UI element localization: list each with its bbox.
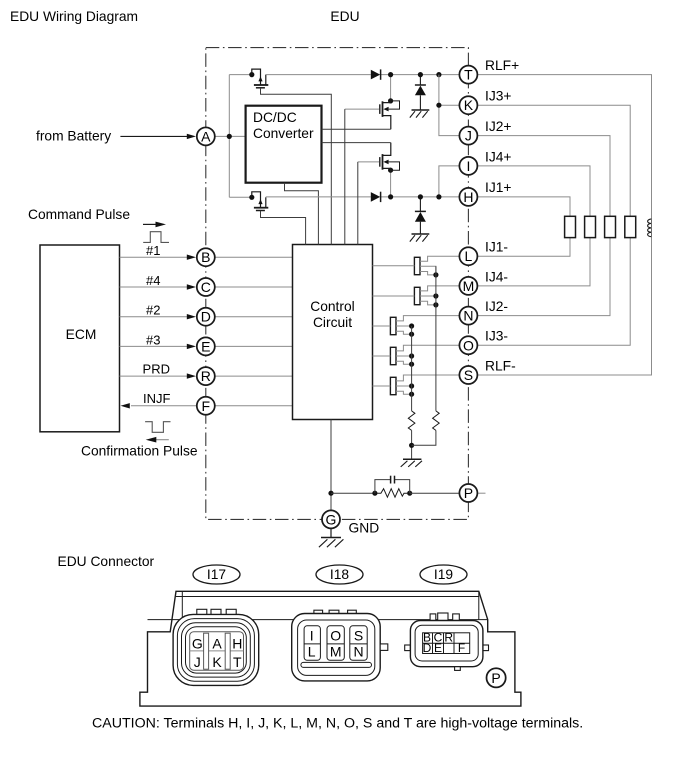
- wire control bottom to G: [328, 420, 333, 520]
- wire Q2 gate riser: [345, 109, 379, 244]
- ground under G: [319, 529, 344, 547]
- svg-text:A: A: [212, 635, 222, 651]
- svg-text:EDU Wiring Diagram: EDU Wiring Diagram: [10, 9, 138, 24]
- wire DC/DC output 1: [322, 128, 391, 130]
- svg-text:IJ2-: IJ2-: [485, 299, 508, 314]
- svg-text:Converter: Converter: [253, 126, 314, 141]
- terminal M: [459, 277, 477, 295]
- svg-text:S: S: [354, 627, 363, 643]
- svg-text:P: P: [491, 670, 500, 686]
- wire RLF loop T to S: [478, 75, 652, 375]
- terminal N: [459, 307, 477, 325]
- transistor Q1 (high-side switch, rotated MOSFET): [249, 69, 268, 88]
- transistor Q6 (IJ4 low side): [373, 286, 460, 308]
- svg-text:R: R: [201, 368, 211, 384]
- svg-text:I19: I19: [434, 567, 454, 582]
- terminal J: [459, 127, 477, 145]
- label IJ4-: [485, 269, 508, 284]
- DC/DC converter box: [246, 106, 322, 183]
- diode D4 zener to ground: [415, 194, 426, 234]
- svg-text:L: L: [465, 248, 473, 264]
- resistor injector 4: [585, 216, 596, 237]
- label Command Pulse: [28, 207, 130, 222]
- wire battery to Q1: [229, 74, 252, 76]
- wire IJ3 loop K to O: [478, 105, 630, 345]
- svg-text:Command Pulse: Command Pulse: [28, 207, 130, 222]
- label IJ4+: [485, 149, 511, 164]
- svg-text:EDU Connector: EDU Connector: [58, 554, 155, 569]
- connector I19: [405, 613, 489, 670]
- H rail wire: [266, 196, 459, 198]
- transistor Q2 (DC/DC high output MOSFET): [380, 72, 400, 129]
- label EDU Connector: [58, 554, 155, 569]
- svg-text:IJ1+: IJ1+: [485, 180, 511, 195]
- terminal S: [459, 366, 477, 384]
- terminal T: [459, 66, 477, 84]
- ECM box: [40, 245, 120, 432]
- svg-text:RLF+: RLF+: [485, 58, 519, 73]
- svg-text:IJ2+: IJ2+: [485, 119, 511, 134]
- svg-text:N: N: [463, 308, 473, 324]
- svg-text:G: G: [192, 635, 203, 651]
- wire battery to Q4: [229, 196, 252, 198]
- svg-text:RLF-: RLF-: [485, 358, 516, 373]
- wire Q1 gate to control: [261, 88, 332, 245]
- terminal K: [459, 96, 477, 114]
- svg-text:PRD: PRD: [143, 362, 170, 377]
- svg-text:EDU: EDU: [330, 9, 359, 24]
- svg-text:P: P: [464, 485, 473, 501]
- svg-text:G: G: [326, 511, 337, 527]
- label IJ2+: [485, 119, 511, 134]
- diode D1: [371, 69, 381, 79]
- svg-text:#4: #4: [146, 273, 160, 288]
- terminal P on connector: [487, 668, 506, 687]
- svg-text:I18: I18: [330, 567, 350, 582]
- svg-text:E: E: [434, 641, 442, 655]
- wire ECM #1 to B with arrow: [120, 255, 197, 260]
- svg-text:O: O: [463, 337, 474, 353]
- oval label I17: [193, 565, 240, 584]
- svg-text:N: N: [353, 644, 363, 660]
- terminal O: [459, 336, 477, 354]
- Control Circuit box: [293, 245, 373, 420]
- confirmation pulse arrow: [146, 437, 169, 443]
- terminal L: [459, 247, 477, 265]
- wire A to DC/DC: [215, 135, 245, 137]
- sense rail left with resistor: [408, 326, 415, 459]
- wire ECM #4 to C with arrow: [120, 284, 197, 289]
- wire Q4 gate to control: [261, 211, 306, 245]
- wire from Battery to A with arrow: [120, 134, 196, 139]
- terminal P: [459, 484, 477, 502]
- label RLF+: [485, 58, 519, 73]
- wire T rail to K and J: [436, 72, 459, 136]
- svg-text:Confirmation Pulse: Confirmation Pulse: [81, 444, 198, 459]
- svg-text:F: F: [458, 641, 465, 655]
- label INJF: [143, 391, 171, 406]
- T rail wire: [266, 74, 459, 76]
- ground under D2: [410, 110, 430, 118]
- wire IJ2 loop J to N: [478, 136, 610, 316]
- svg-text:T: T: [464, 67, 473, 83]
- label IJ3+: [485, 89, 511, 104]
- svg-text:IJ3+: IJ3+: [485, 89, 511, 104]
- junction node at A: [227, 134, 232, 139]
- svg-text:Circuit: Circuit: [313, 315, 352, 330]
- inductor RLF coil: [648, 219, 652, 237]
- wire F INJF to ECM with arrow: [121, 403, 197, 408]
- svg-text:K: K: [464, 97, 474, 113]
- svg-text:IJ3-: IJ3-: [485, 329, 508, 344]
- wire DC/DC output 2: [322, 142, 391, 144]
- transistor Q9 (RLF low side): [373, 375, 460, 397]
- svg-text:D: D: [201, 309, 211, 325]
- label IJ3-: [485, 329, 508, 344]
- wire G node to P with RC: [331, 489, 486, 498]
- svg-text:E: E: [201, 338, 210, 354]
- label PRD: [143, 362, 170, 377]
- diode D2 zener to ground: [415, 72, 426, 110]
- caution note: [92, 716, 583, 732]
- label #1: [146, 243, 160, 258]
- svg-text:H: H: [463, 189, 473, 205]
- label #4: [146, 273, 160, 288]
- oval label I18: [316, 565, 363, 584]
- diode D3: [371, 192, 381, 202]
- wire I to H rail: [436, 166, 459, 200]
- wire ECM #3 to E with arrow: [120, 344, 197, 349]
- svg-text:A: A: [201, 128, 211, 144]
- svg-text:J: J: [194, 654, 201, 670]
- terminal R: [197, 367, 215, 385]
- svg-text:#2: #2: [146, 303, 160, 318]
- terminal H: [459, 188, 477, 206]
- terminal I: [459, 157, 477, 175]
- wire IJ4 loop I to M: [478, 166, 590, 286]
- svg-text:M: M: [330, 644, 342, 660]
- svg-text:#1: #1: [146, 243, 160, 258]
- resistor injector 3: [625, 216, 636, 237]
- ground under sense rails: [401, 459, 422, 467]
- svg-text:R: R: [444, 630, 453, 644]
- terminal G: [322, 510, 340, 528]
- svg-text:C: C: [201, 279, 211, 295]
- svg-text:IJ4-: IJ4-: [485, 269, 508, 284]
- label EDU: [330, 9, 359, 24]
- terminal A: [197, 127, 215, 145]
- confirmation pulse waveform: [145, 422, 170, 433]
- wires circles B-F to Control Circuit: [215, 257, 292, 406]
- svg-text:Control: Control: [310, 299, 354, 314]
- svg-text:IJ4+: IJ4+: [485, 149, 511, 164]
- svg-text:CAUTION: Terminals H, I, J, K,: CAUTION: Terminals H, I, J, K, L, M, N, …: [92, 716, 583, 732]
- title EDU Wiring Diagram: [10, 9, 138, 24]
- svg-text:K: K: [212, 654, 222, 670]
- svg-text:F: F: [202, 398, 211, 414]
- terminal C: [197, 278, 215, 296]
- svg-text:H: H: [232, 635, 242, 651]
- label #3: [146, 332, 160, 347]
- terminal F: [197, 397, 215, 415]
- label RLF-: [485, 358, 516, 373]
- wire ECM PRD to R with arrow: [120, 373, 197, 378]
- capacitor C1: [375, 476, 410, 494]
- label GND: [349, 521, 380, 536]
- oval label I19: [420, 565, 467, 584]
- terminal E: [197, 337, 215, 355]
- label #2: [146, 303, 160, 318]
- connector I17: [173, 609, 259, 685]
- command pulse waveform: [143, 232, 169, 243]
- connector case: [140, 591, 521, 706]
- svg-text:O: O: [330, 627, 341, 643]
- label IJ1+: [485, 180, 511, 195]
- svg-text:from Battery: from Battery: [36, 129, 111, 144]
- svg-text:ECM: ECM: [66, 327, 97, 342]
- svg-text:M: M: [463, 278, 475, 294]
- wire ECM #2 to D with arrow: [120, 314, 197, 319]
- label Confirmation Pulse: [81, 444, 198, 459]
- svg-text:J: J: [465, 128, 472, 144]
- svg-text:IJ1-: IJ1-: [485, 240, 508, 255]
- svg-text:L: L: [308, 644, 316, 660]
- svg-text:DC/DC: DC/DC: [253, 110, 297, 125]
- wire Q3 gate riser: [358, 162, 379, 245]
- terminal D: [197, 308, 215, 326]
- svg-text:D: D: [423, 641, 432, 655]
- svg-text:#3: #3: [146, 332, 160, 347]
- resistor injector 2: [605, 216, 616, 237]
- label from Battery: [36, 129, 111, 144]
- transistor Q7 (IJ2 low side): [373, 316, 460, 337]
- command pulse arrow: [143, 222, 166, 228]
- svg-text:S: S: [464, 367, 473, 383]
- svg-text:B: B: [201, 249, 210, 265]
- ground under D4: [410, 234, 430, 242]
- label IJ1-: [485, 240, 508, 255]
- EDU boundary dash-dot box: [206, 48, 469, 520]
- svg-text:T: T: [233, 654, 242, 670]
- wire DC/DC bottom to control: [285, 183, 319, 245]
- resistor injector 1: [565, 216, 576, 237]
- svg-text:INJF: INJF: [143, 391, 171, 406]
- transistor Q4 (low battery-side switch, rotated MOSFET): [249, 192, 268, 211]
- transistor Q5 (IJ1 low side): [373, 256, 460, 277]
- svg-text:I: I: [466, 158, 470, 174]
- transistor Q8 (IJ3 low side): [373, 345, 460, 367]
- connector I18: [292, 610, 388, 681]
- svg-text:I: I: [310, 627, 314, 643]
- terminal B: [197, 248, 215, 266]
- wire IJ1 loop H to L: [478, 197, 570, 256]
- label IJ2-: [485, 299, 508, 314]
- sense rail right with resistor: [412, 266, 440, 445]
- battery rail vertical: [228, 75, 230, 198]
- transistor Q3 (DC/DC output MOSFET to H rail): [380, 143, 400, 200]
- svg-text:GND: GND: [349, 521, 380, 536]
- svg-text:I17: I17: [207, 567, 226, 582]
